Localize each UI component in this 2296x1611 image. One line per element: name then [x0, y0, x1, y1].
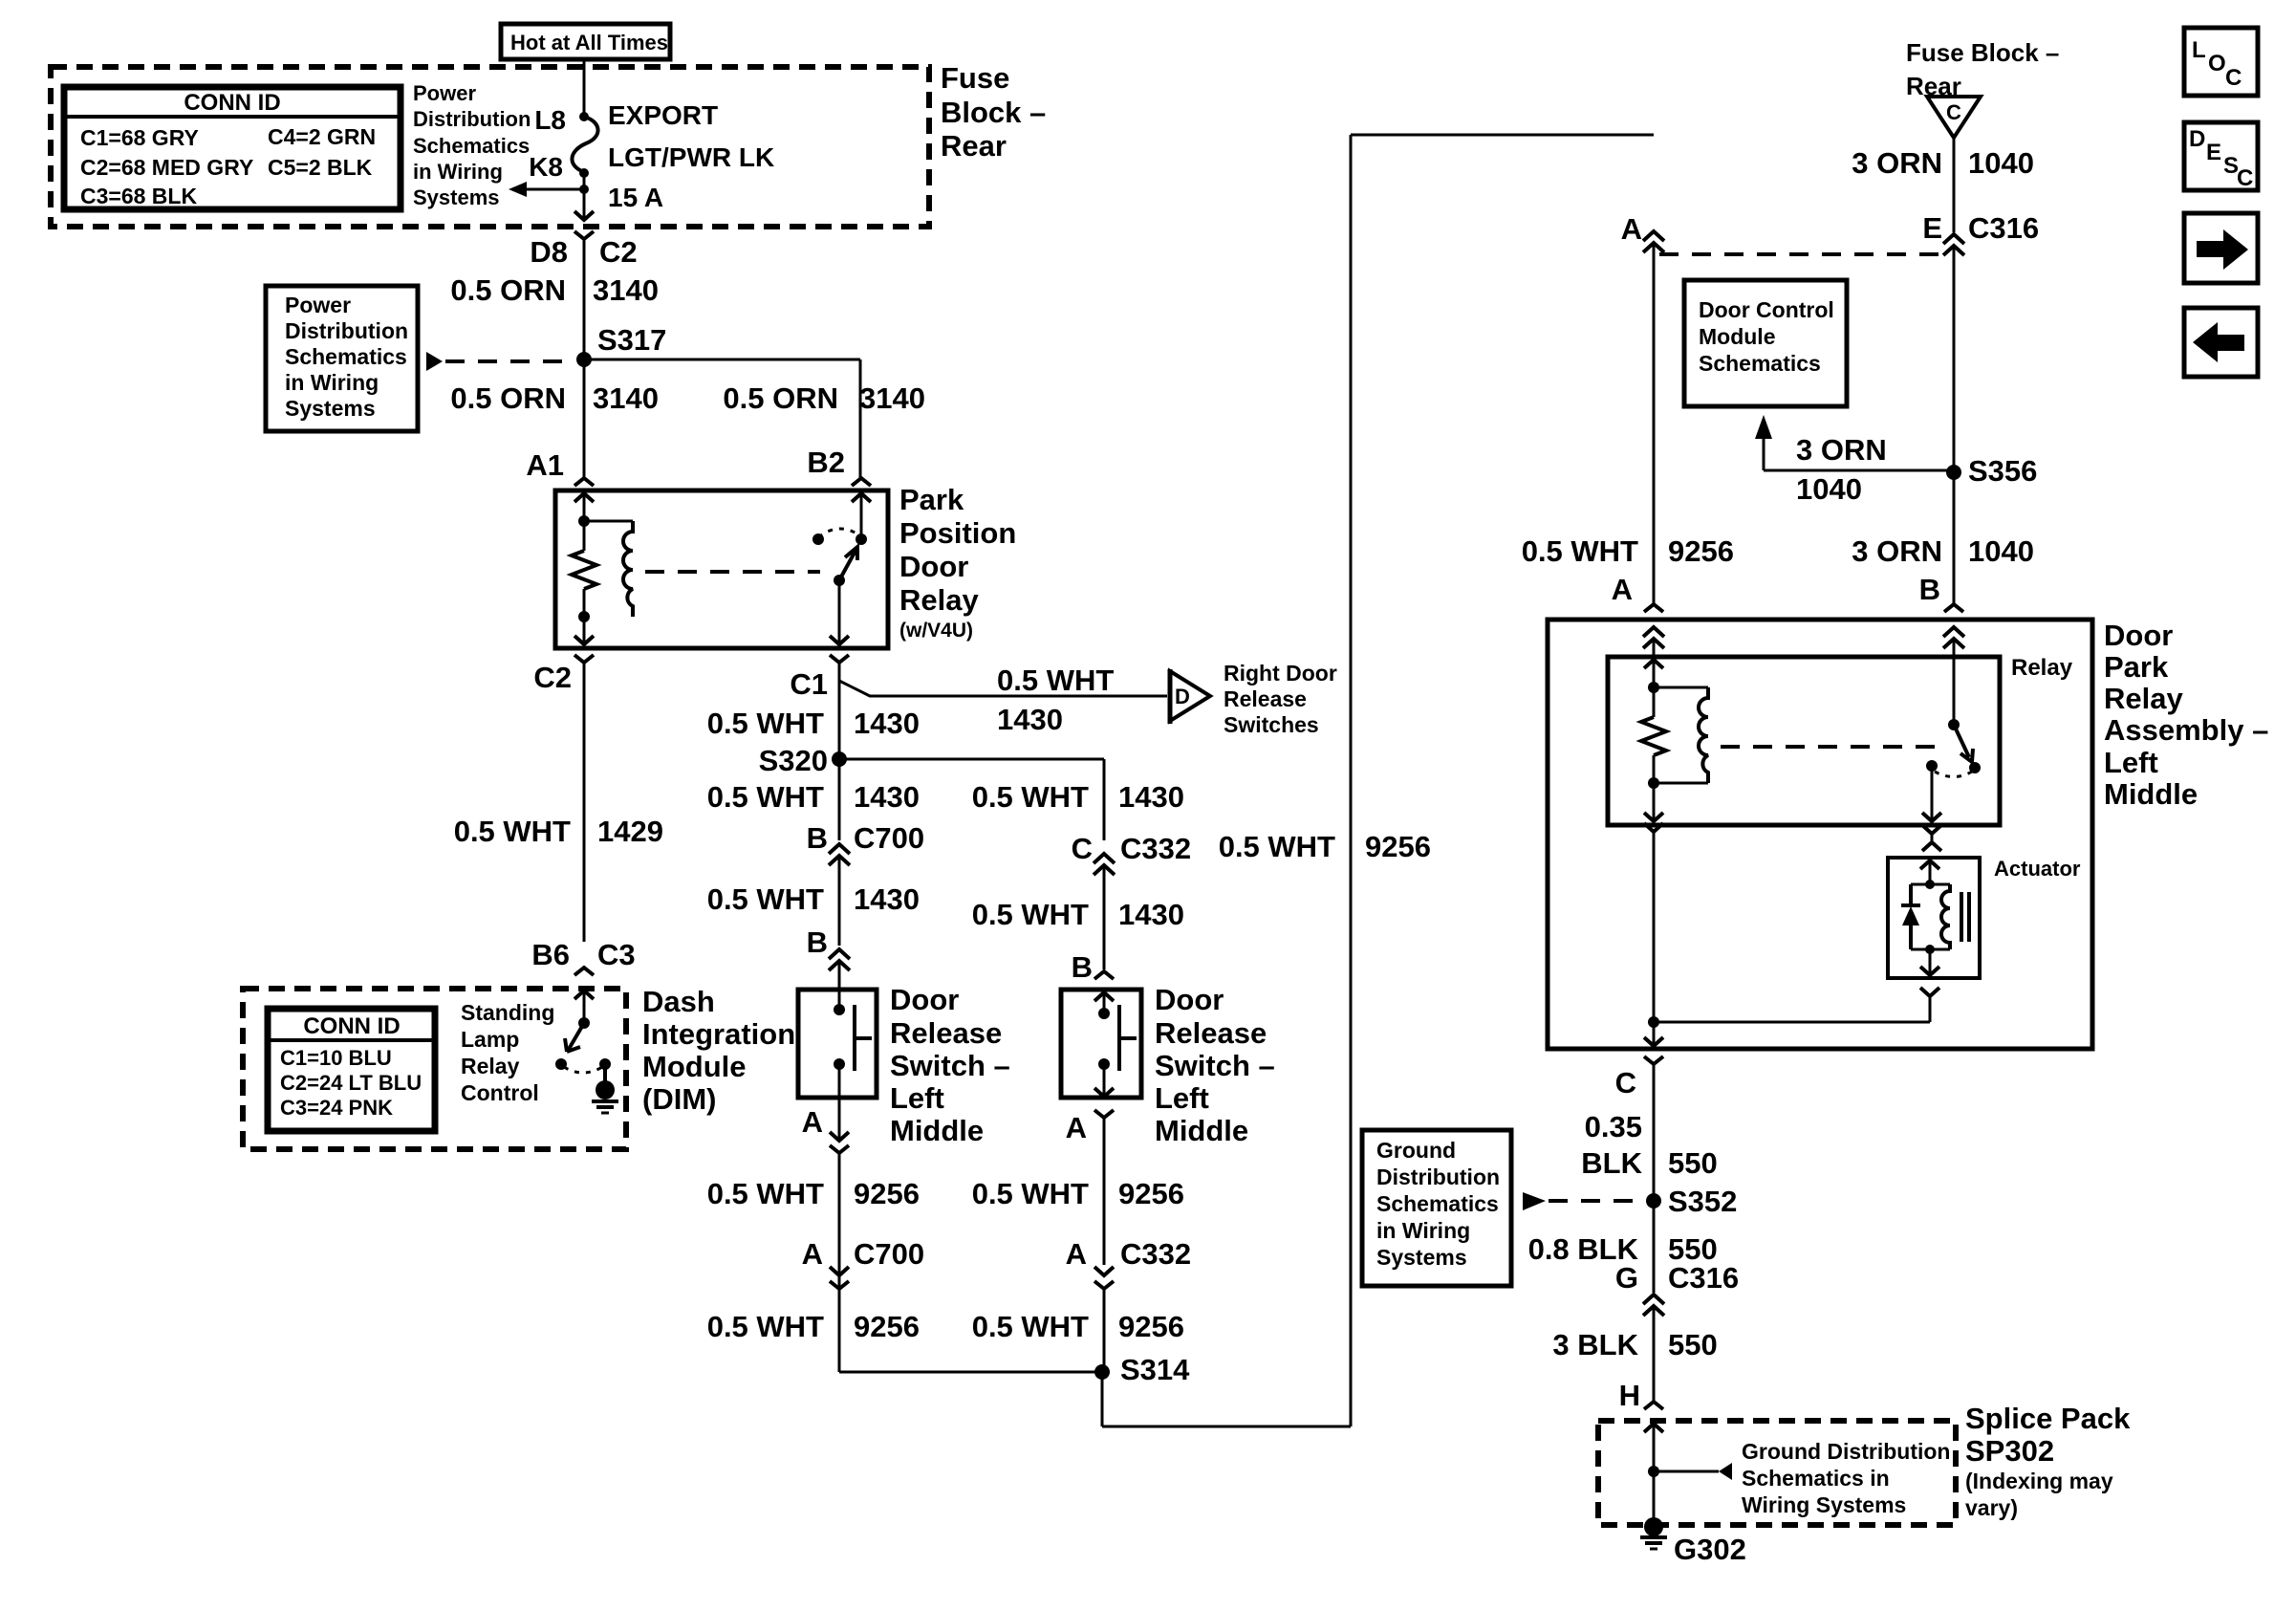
svg-text:0.5 WHT: 0.5 WHT: [972, 1177, 1089, 1210]
svg-text:(DIM): (DIM): [642, 1082, 716, 1116]
left switch plunger: [853, 1005, 856, 1071]
svg-text:0.5 WHT: 0.5 WHT: [454, 815, 571, 848]
legend LOC box: [2184, 28, 2258, 96]
svg-text:Schematics in: Schematics in: [1742, 1466, 1890, 1491]
svg-text:C: C: [1072, 832, 1093, 865]
svg-text:Integration: Integration: [642, 1017, 795, 1051]
svg-text:Fuse Block –: Fuse Block –: [1906, 38, 2059, 67]
svg-text:0.5 WHT: 0.5 WHT: [707, 707, 824, 740]
svg-text:Switch –: Switch –: [890, 1049, 1010, 1082]
svg-text:C700: C700: [854, 821, 924, 855]
svg-text:1040: 1040: [1968, 534, 2034, 568]
svg-text:Relay: Relay: [2011, 655, 2073, 681]
svg-text:Middle: Middle: [1155, 1114, 1248, 1147]
svg-text:A1: A1: [526, 448, 564, 482]
door control module schematics box: [1684, 280, 1847, 406]
inner relay switch pivot dot: [1948, 719, 1960, 730]
splice pack entry arrow: [1644, 1424, 1663, 1432]
svg-text:Door: Door: [2104, 619, 2173, 652]
pin A chevron below right switch: [1094, 1110, 1114, 1118]
wire actuator to junction: [1929, 996, 1932, 1022]
left switch output wire: [838, 1064, 841, 1139]
svg-text:Assembly –: Assembly –: [2104, 713, 2268, 747]
wire S320 down to C700: [838, 759, 841, 840]
svg-text:Splice Pack: Splice Pack: [1965, 1402, 2131, 1435]
svg-text:Left: Left: [1155, 1081, 1209, 1115]
ground G302 ball: [1644, 1517, 1663, 1536]
relay switch NO contact dot: [856, 533, 867, 545]
ground G302 symbol: [1640, 1535, 1667, 1539]
CONN ID table 1: [64, 87, 401, 209]
inner relay switch arm: [1954, 725, 1969, 757]
svg-text:0.5 WHT: 0.5 WHT: [972, 898, 1089, 931]
right switch plunger: [1117, 1005, 1121, 1071]
svg-text:Left: Left: [2104, 746, 2158, 779]
svg-text:A: A: [1066, 1111, 1087, 1144]
inner relay switch entry: [1953, 657, 1956, 725]
svg-text:Module: Module: [642, 1050, 747, 1083]
svg-text:L8: L8: [534, 105, 566, 135]
svg-text:Left: Left: [890, 1081, 944, 1115]
svg-text:1429: 1429: [597, 815, 663, 848]
svg-text:Door Control: Door Control: [1699, 297, 1834, 322]
svg-text:3 ORN: 3 ORN: [1852, 146, 1942, 180]
svg-text:SP302: SP302: [1965, 1434, 2054, 1468]
fuse block rear triangle connector C: [1927, 97, 1981, 138]
svg-text:Schematics: Schematics: [413, 134, 530, 158]
wire into S314: [839, 1371, 1102, 1374]
svg-text:1430: 1430: [854, 882, 920, 916]
svg-text:9256: 9256: [1668, 534, 1734, 568]
left switch bottom contact dot: [834, 1058, 845, 1070]
svg-text:Schematics: Schematics: [1699, 351, 1821, 376]
svg-text:Position: Position: [899, 516, 1016, 550]
fuse EXPORT LGT/PWR LK 15A: [579, 112, 589, 121]
wire left switch A down: [838, 1153, 841, 1372]
svg-text:BLK: BLK: [1581, 1146, 1642, 1180]
connector Y below actuator: [1920, 988, 1939, 996]
svg-text:C316: C316: [1668, 1261, 1739, 1295]
svg-text:3140: 3140: [593, 381, 659, 415]
ground distribution schematics box: [1362, 1130, 1511, 1286]
splice pack junction dot: [1648, 1466, 1659, 1477]
door park relay assembly outer box: [1548, 620, 2092, 1049]
svg-text:3140: 3140: [859, 381, 925, 415]
assembly output junction dot: [1648, 1016, 1659, 1028]
svg-text:Door: Door: [890, 983, 959, 1016]
pin C1 chevron below relay: [830, 655, 849, 663]
svg-text:S320: S320: [759, 744, 828, 777]
svg-text:B: B: [1072, 950, 1093, 984]
svg-text:Hot at All Times: Hot at All Times: [510, 31, 668, 54]
svg-text:Distribution: Distribution: [413, 107, 531, 131]
svg-text:C4=2 GRN: C4=2 GRN: [268, 124, 376, 149]
arrow up into door control module box: [1755, 415, 1772, 439]
svg-text:Control: Control: [461, 1080, 539, 1105]
svg-text:0.5 ORN: 0.5 ORN: [450, 273, 566, 307]
svg-text:Park: Park: [2104, 650, 2169, 684]
svg-text:D8: D8: [530, 235, 568, 269]
svg-text:O: O: [2208, 51, 2226, 76]
triangle connector D: [1168, 669, 1173, 724]
inner relay dashed actuation link: [1721, 745, 1940, 749]
legend right arrow box: [2184, 213, 2258, 283]
svg-text:1430: 1430: [854, 707, 920, 740]
pin H chevron above splice pack: [1644, 1402, 1663, 1409]
relay switch NC contact dot: [812, 533, 824, 545]
break symbols A C700: [830, 1267, 849, 1275]
svg-text:C2=68 MED GRY: C2=68 MED GRY: [80, 155, 253, 180]
svg-text:0.5 WHT: 0.5 WHT: [972, 780, 1089, 814]
wire fuse to takeoff dot: [583, 173, 586, 189]
svg-text:LGT/PWR LK: LGT/PWR LK: [608, 142, 774, 172]
svg-text:Release: Release: [890, 1016, 1002, 1050]
wire S352 down to G C316: [1653, 1201, 1656, 1293]
svg-text:Lamp: Lamp: [461, 1027, 519, 1052]
svg-text:C: C: [1615, 1066, 1636, 1099]
wire S356 down to B: [1953, 472, 1956, 604]
svg-text:Actuator: Actuator: [1994, 857, 2081, 881]
inner relay top junction dot: [1648, 682, 1659, 693]
svg-text:1430: 1430: [854, 780, 920, 814]
tie wire riser 9256: [1350, 135, 1353, 1426]
svg-text:C5=2 BLK: C5=2 BLK: [268, 155, 373, 180]
svg-text:Release: Release: [1155, 1016, 1267, 1050]
left switch top contact dot: [834, 1004, 845, 1015]
svg-text:Schematics: Schematics: [1376, 1191, 1499, 1216]
wire C down to S352: [1653, 1064, 1656, 1201]
wire S317 down to A1: [583, 359, 586, 478]
svg-text:L: L: [2192, 37, 2206, 63]
DIM entry arrow: [574, 991, 594, 999]
svg-text:9256: 9256: [1118, 1310, 1184, 1343]
svg-text:1040: 1040: [1796, 472, 1862, 506]
svg-text:9256: 9256: [854, 1310, 920, 1343]
door release switch left box: [798, 990, 877, 1098]
wire to G302: [1653, 1471, 1656, 1523]
actuator coil branch: [1930, 883, 1950, 886]
svg-text:550: 550: [1668, 1328, 1718, 1361]
relay switch dotted arc: [818, 529, 859, 537]
DIM relay coil dot: [578, 1017, 590, 1029]
svg-text:C316: C316: [1968, 211, 2039, 245]
svg-text:9256: 9256: [854, 1177, 920, 1210]
svg-text:3140: 3140: [593, 273, 659, 307]
connector break B (left switch): [829, 949, 850, 959]
relay switch common dot and arm: [834, 575, 845, 586]
legend left arrow box: [2184, 308, 2258, 377]
splice S352: [1646, 1193, 1661, 1208]
svg-text:in Wiring: in Wiring: [413, 160, 503, 184]
svg-text:Dash: Dash: [642, 985, 715, 1018]
svg-text:E: E: [2206, 140, 2221, 165]
wire S317 branch to B2: [584, 359, 860, 361]
pin exit chevron below fuse block: [574, 231, 594, 239]
tie wire top run: [1351, 134, 1654, 137]
dash integration module dashed box: [243, 989, 626, 1149]
inner relay resistor: [1653, 687, 1656, 717]
svg-text:Wiring Systems: Wiring Systems: [1742, 1492, 1906, 1517]
actuator exit wire: [1929, 949, 1932, 973]
svg-text:Door: Door: [1155, 983, 1224, 1016]
svg-text:Right Door: Right Door: [1224, 661, 1337, 686]
svg-text:C1=10 BLU: C1=10 BLU: [280, 1046, 392, 1070]
svg-text:D: D: [1175, 685, 1190, 708]
legend DESC box: [2184, 122, 2258, 190]
svg-text:G302: G302: [1674, 1533, 1746, 1566]
svg-text:Relay: Relay: [899, 583, 979, 617]
svg-text:C: C: [1946, 100, 1961, 124]
splice S314: [1094, 1364, 1110, 1380]
wire C2 down to B6: [583, 663, 586, 942]
takeoff to Power Distribution Schematics (arrow left): [579, 185, 589, 194]
svg-text:0.5 WHT: 0.5 WHT: [997, 664, 1114, 697]
svg-text:Power: Power: [413, 81, 476, 105]
svg-text:C1: C1: [790, 667, 828, 701]
svg-text:Middle: Middle: [2104, 777, 2198, 811]
inner relay switch NC dot: [1969, 762, 1981, 773]
right switch entry arrow: [1094, 992, 1114, 1001]
svg-text:9256: 9256: [1118, 1177, 1184, 1210]
svg-text:Standing: Standing: [461, 1000, 554, 1025]
svg-text:0.5 WHT: 0.5 WHT: [707, 1177, 824, 1210]
svg-text:Switches: Switches: [1224, 712, 1319, 737]
DIM ground symbol: [592, 1099, 618, 1103]
actuator entry arrow: [1920, 860, 1939, 869]
branch wire to right door release switches: [839, 681, 1167, 696]
DIM ground stem and ball: [603, 1064, 607, 1083]
svg-text:Ground: Ground: [1376, 1138, 1456, 1163]
svg-text:in Wiring: in Wiring: [285, 370, 379, 395]
inner relay pin A entry arrow: [1644, 660, 1663, 668]
svg-text:A: A: [802, 1237, 823, 1271]
svg-text:C: C: [2237, 165, 2253, 191]
svg-text:A: A: [1612, 573, 1633, 606]
splice S317: [576, 352, 592, 367]
DIM switch contact dot: [555, 1058, 567, 1070]
svg-text:D: D: [2189, 126, 2205, 152]
svg-text:0.5 ORN: 0.5 ORN: [723, 381, 838, 415]
svg-text:Middle: Middle: [890, 1114, 984, 1147]
svg-text:S314: S314: [1120, 1353, 1190, 1386]
inner relay switch dotted arc: [1935, 772, 1972, 777]
svg-text:B: B: [807, 821, 828, 855]
svg-text:Door: Door: [899, 550, 968, 583]
splice pack note pointer: [1654, 1470, 1719, 1473]
svg-text:Fuse: Fuse: [941, 61, 1009, 95]
relay pin C2 exit arrow: [574, 636, 594, 644]
wire fuse block to S317: [583, 239, 586, 359]
svg-text:Release: Release: [1224, 686, 1307, 711]
actuator bottom dot: [1925, 945, 1935, 954]
wire relay A side down to junction: [1653, 832, 1656, 1022]
inner relay switch output wire: [1931, 766, 1934, 819]
pin A chevron below left switch: [830, 1145, 849, 1153]
svg-text:550: 550: [1668, 1146, 1718, 1180]
svg-text:Ground Distribution: Ground Distribution: [1742, 1439, 1950, 1464]
svg-text:Distribution: Distribution: [285, 318, 408, 343]
svg-text:Power: Power: [285, 293, 351, 317]
svg-text:K8: K8: [529, 152, 563, 182]
inner relay bottom junction dot: [1648, 777, 1659, 789]
svg-text:9256: 9256: [1365, 830, 1431, 863]
svg-text:C332: C332: [1120, 832, 1191, 865]
right switch output wire: [1103, 1064, 1106, 1095]
svg-text:0.5 ORN: 0.5 ORN: [450, 381, 566, 415]
svg-text:Systems: Systems: [285, 396, 376, 421]
svg-text:C: C: [2225, 65, 2242, 91]
svg-text:C2=24 LT BLU: C2=24 LT BLU: [280, 1071, 422, 1095]
svg-text:Park: Park: [899, 483, 964, 516]
assembly pin A inner break: [1643, 627, 1664, 637]
inner relay pin exit arrow (A side): [1644, 813, 1663, 821]
relay pin C1 exit arrow: [830, 636, 849, 644]
svg-text:0.5 WHT: 0.5 WHT: [1219, 830, 1335, 863]
svg-text:B: B: [1919, 573, 1940, 606]
svg-text:3 ORN: 3 ORN: [1796, 433, 1887, 467]
svg-text:Relay: Relay: [2104, 682, 2183, 715]
wire right switch A down: [1103, 1118, 1106, 1265]
svg-text:EXPORT: EXPORT: [608, 100, 718, 130]
svg-text:Block –: Block –: [941, 96, 1046, 129]
svg-text:vary): vary): [1965, 1495, 2018, 1520]
svg-text:S352: S352: [1668, 1185, 1737, 1218]
svg-text:B6: B6: [531, 938, 570, 971]
svg-text:(Indexing may: (Indexing may: [1965, 1469, 2113, 1493]
svg-text:B2: B2: [807, 446, 845, 479]
right switch bottom contact dot: [1098, 1058, 1110, 1070]
relay coil junction top dot: [578, 515, 590, 527]
svg-text:0.35: 0.35: [1585, 1110, 1642, 1143]
svg-text:Switch –: Switch –: [1155, 1049, 1275, 1082]
svg-text:Distribution: Distribution: [1376, 1165, 1500, 1189]
svg-text:3 BLK: 3 BLK: [1552, 1328, 1638, 1361]
right switch top contact dot: [1098, 1008, 1110, 1019]
svg-text:S317: S317: [597, 323, 666, 357]
relay inner box: [1608, 657, 2000, 825]
dashed link A to C316: [1659, 252, 1948, 256]
connector mate symbols relay to actuator: [1922, 825, 1941, 834]
svg-text:1430: 1430: [997, 703, 1063, 736]
svg-text:0.5 WHT: 0.5 WHT: [707, 882, 824, 916]
break symbols A C332: [1094, 1267, 1114, 1275]
relay coil: [584, 520, 633, 523]
svg-text:0.5 WHT: 0.5 WHT: [707, 1310, 824, 1343]
svg-text:C2: C2: [599, 235, 638, 269]
connector break G C316: [1643, 1295, 1664, 1304]
svg-text:C3=68 BLK: C3=68 BLK: [80, 184, 197, 208]
DIM ground contact dot: [599, 1058, 611, 1070]
relay actuation dashed link: [645, 570, 820, 574]
splice S320: [832, 751, 847, 767]
relay pin A1 entry arrow: [574, 493, 594, 502]
svg-text:C700: C700: [854, 1237, 924, 1271]
pin C chevron below assembly: [1644, 1056, 1663, 1064]
svg-text:C2: C2: [533, 661, 572, 694]
svg-text:Module: Module: [1699, 324, 1776, 349]
connector break C700 (B): [829, 844, 850, 854]
svg-text:B: B: [807, 925, 828, 959]
splice S356: [1946, 465, 1961, 480]
svg-text:Systems: Systems: [413, 185, 500, 209]
wire C1 down to S320: [838, 663, 841, 759]
svg-text:3 ORN: 3 ORN: [1852, 534, 1942, 568]
wire triangle down to E C316: [1953, 138, 1956, 232]
inner relay switch output dot: [1926, 760, 1938, 772]
pin C2 chevron below relay: [574, 655, 594, 663]
pin B chevron above assembly: [1944, 604, 1963, 612]
svg-text:A: A: [802, 1105, 823, 1139]
Power Distribution Schematics side box: [266, 286, 418, 431]
svg-text:1430: 1430: [1118, 898, 1184, 931]
svg-text:Systems: Systems: [1376, 1245, 1467, 1270]
svg-text:A: A: [1066, 1237, 1087, 1271]
connector break E C316: [1943, 234, 1964, 244]
svg-text:C3=24 PNK: C3=24 PNK: [280, 1096, 393, 1120]
fuse block dashed box: [51, 67, 929, 227]
relay pin B2 entry arrow: [852, 493, 871, 502]
svg-text:C332: C332: [1120, 1237, 1191, 1271]
svg-text:1430: 1430: [1118, 780, 1184, 814]
pin B chevron (right switch): [1094, 971, 1114, 979]
svg-text:CONN ID: CONN ID: [303, 1013, 400, 1039]
dashed pointer to S352: [1523, 1192, 1546, 1210]
actuator box: [1888, 858, 1980, 978]
svg-text:S356: S356: [1968, 454, 2037, 488]
dashed pointer to S317: [426, 352, 443, 371]
door release switch right box: [1061, 990, 1141, 1098]
svg-text:1040: 1040: [1968, 146, 2034, 180]
inner relay coil: [1654, 686, 1708, 689]
splice pack dashed box: [1598, 1421, 1956, 1525]
wire down with exit arrow at fuse block edge: [583, 189, 586, 218]
svg-text:0.5 WHT: 0.5 WHT: [707, 780, 824, 814]
wire S314 to tie riser: [1101, 1372, 1104, 1426]
label Hot at All Times box: [501, 24, 670, 59]
connector Y below relay (A side): [1644, 823, 1663, 832]
DIM switch arm: [568, 1023, 584, 1051]
svg-text:A: A: [1621, 212, 1642, 246]
svg-text:Schematics: Schematics: [285, 344, 407, 369]
relay coil junction bottom dot: [578, 611, 590, 622]
svg-text:Relay: Relay: [461, 1054, 520, 1078]
assembly pin B inner break: [1943, 627, 1964, 637]
relay resistor: [583, 521, 586, 551]
svg-text:CONN ID: CONN ID: [184, 90, 280, 116]
svg-text:15 A: 15 A: [608, 183, 663, 212]
svg-text:Rear: Rear: [941, 129, 1007, 163]
connector break A (dashed link): [1643, 231, 1664, 241]
wire S320 branch right to C332 wire: [839, 758, 1104, 761]
svg-text:C1=68 GRY: C1=68 GRY: [80, 125, 199, 150]
CONN ID table 2: [268, 1009, 435, 1131]
actuator top dot: [1925, 880, 1935, 889]
svg-text:C3: C3: [597, 938, 636, 971]
svg-text:(w/V4U): (w/V4U): [899, 620, 973, 642]
actuator diode branch: [1911, 883, 1930, 886]
svg-text:E: E: [1922, 211, 1942, 245]
park position door relay box: [574, 478, 594, 486]
svg-text:0.5 WHT: 0.5 WHT: [972, 1310, 1089, 1343]
actuator coil core lines: [1960, 892, 1963, 942]
wire from Hot at All Times into fuse block: [583, 59, 586, 117]
svg-text:H: H: [1619, 1379, 1640, 1412]
pin B6 chevron above DIM: [574, 968, 594, 975]
svg-text:G: G: [1615, 1261, 1638, 1295]
connector break C332 (C): [1094, 854, 1115, 863]
svg-text:in Wiring: in Wiring: [1376, 1218, 1470, 1243]
pin A chevron above assembly: [1644, 604, 1663, 612]
